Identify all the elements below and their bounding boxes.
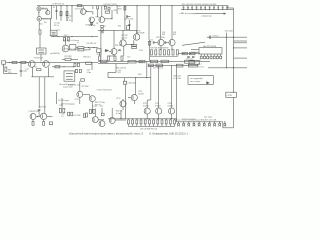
- svg-text:VT22: VT22: [155, 103, 159, 105]
- svg-text:R39 С23 2мк: R39 С23 2мк: [95, 102, 105, 104]
- wire VT11 down: [171, 46, 173, 50]
- node junction input: [38, 12, 39, 13]
- relay K1 box: [226, 92, 237, 97]
- node junction x149 bus: [149, 5, 150, 6]
- svg-text:R30: R30: [138, 74, 141, 76]
- node junction bus x125: [124, 5, 125, 6]
- diode VD22 bottom: [208, 123, 210, 125]
- node junction y67.8 b: [233, 67, 234, 68]
- svg-text:VT19: VT19: [116, 98, 120, 100]
- wire VD21 stub: [203, 122, 205, 123]
- capacitor C48 row: [217, 5, 219, 8]
- box A1 next sheet: [188, 76, 213, 85]
- capacitor C32: [187, 55, 190, 57]
- node junction y77.7: [135, 77, 136, 78]
- svg-text:C2 R8 VD5 C5: C2 R8 VD5 C5: [52, 4, 64, 6]
- wire vertical x51: [50, 6, 52, 19]
- wire center bus y61.3: [98, 60, 210, 62]
- svg-text:2к 1мк: 2к 1мк: [116, 113, 121, 115]
- wire x39.2 long drop: [38, 77, 40, 108]
- capacitor C22: [38, 108, 41, 110]
- svg-text:C6 R14 C7 R15: C6 R14 C7 R15: [104, 4, 117, 6]
- wire VT14 down: [91, 102, 93, 113]
- wire R4 to SA1: [39, 34, 41, 48]
- svg-text:СТ-1: СТ-1: [198, 63, 202, 65]
- component box left of VD7: [97, 49, 101, 53]
- transistor VT16: [99, 121, 105, 127]
- svg-text:к SA1 (зел.провод): к SA1 (зел.провод): [180, 12, 196, 15]
- svg-text:КТ3102: КТ3102: [168, 105, 174, 107]
- resistor R57 bottom row: [153, 120, 155, 124]
- sub bus y66.8: [52, 66, 74, 68]
- transistor VT2: [89, 17, 94, 22]
- node junction y37.2 b: [233, 37, 234, 38]
- resistor R31v: [76, 69, 78, 72]
- transistor VT6: [120, 40, 126, 46]
- wire VT15 to VT17: [98, 119, 104, 121]
- node junction bus bottom b: [158, 118, 159, 119]
- resistor R43h: [189, 52, 195, 54]
- resistor R44v: [86, 113, 88, 117]
- relay K2 box: [64, 71, 75, 81]
- wire VT22 down: [158, 114, 160, 119]
- switch box SB1: [100, 60, 107, 62]
- svg-text:C29 0,1: C29 0,1: [213, 36, 219, 38]
- svg-text:R15 R16 2к2: R15 R16 2к2: [87, 43, 97, 45]
- resistor R53 bottom row: [136, 120, 138, 124]
- node junction VD21: [203, 120, 206, 123]
- svg-text:R41: R41: [94, 106, 97, 108]
- wire x150.8 drop: [150, 65, 152, 100]
- diode VD20 bottom: [198, 123, 200, 125]
- node junction x172 bus: [172, 5, 173, 6]
- wire x135.7 long drop: [135, 78, 137, 95]
- wire R27 link: [62, 58, 65, 60]
- node junction bottom row 9: [165, 117, 168, 120]
- svg-text:VT18 КТ3107: VT18 КТ3107: [28, 111, 39, 113]
- svg-text:DA3 КР174УН31: DA3 КР174УН31: [203, 45, 216, 48]
- wire y120 right: [115, 119, 126, 121]
- node junction VD18: [187, 120, 190, 123]
- wire x146.8 drop: [146, 61, 148, 77]
- wire x62 drop: [61, 98, 63, 108]
- wire R16 right: [84, 49, 90, 51]
- resistor R55 bottom row: [144, 120, 146, 124]
- wire VT20 down: [43, 120, 45, 122]
- node junction y53.6 b: [190, 53, 191, 54]
- node junction C44: [200, 9, 201, 10]
- node junction bus x112: [112, 5, 113, 6]
- node junction bottom row 1: [131, 117, 134, 120]
- svg-text:C30 2200: C30 2200: [225, 30, 233, 32]
- diode VD7: [105, 49, 109, 51]
- switch box SB3: [150, 60, 158, 63]
- wire x117 down: [116, 6, 118, 14]
- resistor R25: [55, 66, 60, 68]
- resistor R48: [189, 61, 199, 65]
- wire VT6 collector: [126, 44, 134, 46]
- capacitor C17: [164, 41, 166, 43]
- svg-text:R51 C41 R52 C42 R53 C43 R54 C4: R51 C41 R52 C42 R53 C43 R54 C44 R55: [182, 4, 217, 6]
- resistor R30v: [78, 63, 80, 66]
- resistor R38 vertical: [163, 50, 165, 55]
- wire bottom bus y121.8: [176, 119, 178, 122]
- resistor R56 bottom row: [148, 120, 150, 124]
- svg-text:C18 10мк: C18 10мк: [127, 83, 135, 85]
- wire DA3 pin 1: [200, 54, 202, 56]
- svg-text:C12: C12: [101, 32, 104, 34]
- node junction x124 y19: [124, 19, 125, 20]
- wire VD20 stub: [198, 122, 200, 123]
- wire VT4 collector right: [76, 47, 78, 49]
- svg-text:1мк 10к: 1мк 10к: [121, 37, 127, 39]
- wire x124.4 drop: [123, 78, 125, 82]
- wire XS1 to VT1a: [41, 8, 48, 10]
- node junction C45: [205, 9, 206, 10]
- transistor VT5: [133, 34, 139, 40]
- wire VT3 collector right: [105, 18, 112, 20]
- wire bus drop to XS1: [38, 6, 40, 7]
- wire stub y47.9: [234, 47, 248, 49]
- svg-text:R27 R28: R27 R28: [65, 56, 72, 58]
- wire x32.4 drop: [31, 67, 33, 77]
- capacitor DA3 pin 5 part: [213, 56, 215, 59]
- wire under resistor row: [150, 56, 178, 58]
- wire x44.8 long drop: [44, 77, 46, 114]
- svg-text:об: об: [77, 42, 79, 44]
- transistor VT22: [156, 108, 162, 114]
- transistor VT21: [144, 108, 150, 114]
- capacitor C11: [118, 49, 121, 51]
- wire vertical x72: [71, 6, 73, 22]
- svg-text:лист схемы: лист схемы: [190, 81, 201, 83]
- svg-text:R16: R16: [114, 10, 117, 12]
- wire SA1 to left bus: [40, 54, 42, 61]
- svg-text:на следующий: на следующий: [190, 77, 203, 80]
- wire VT19-VT20: [36, 115, 40, 117]
- resistor R42h: [182, 52, 188, 54]
- wire VT6 up: [122, 30, 124, 40]
- capacitor DA3 pin 4 part: [210, 56, 212, 59]
- wire x125.4 long drop: [124, 84, 126, 119]
- node junction VT1 collector: [86, 11, 87, 12]
- wire x123.8 up: [123, 46, 125, 56]
- resistor R40 vertical: [172, 50, 174, 55]
- wire DA3 pin 3: [207, 54, 209, 56]
- resistor R23 bus: [21, 61, 26, 63]
- wire K0 down: [53, 36, 55, 37]
- wire input jack link: [38, 11, 40, 17]
- wire x102 up: [99, 52, 101, 56]
- wire left bus y62.4: [6, 61, 98, 63]
- transistor VT20: [40, 113, 46, 119]
- node junction bus c: [27, 62, 28, 63]
- svg-text:С6 R17 см. номинал: С6 R17 см. номинал: [64, 49, 80, 51]
- node junction bottom row 7: [156, 117, 159, 120]
- svg-text:С13: С13: [8, 72, 11, 74]
- transistor VT4: [62, 45, 69, 52]
- wire VT13 emitter to VT14: [83, 93, 89, 95]
- svg-text:10 х 25В: 10 х 25В: [173, 78, 181, 80]
- capacitor DA3 pin 1 part: [200, 56, 202, 59]
- capacitor DA3 pin 3 part: [207, 56, 209, 59]
- wire y72.4 step: [108, 71, 116, 73]
- wire VT7 base: [109, 51, 111, 53]
- resistor R36 vertical: [155, 50, 157, 55]
- svg-text:C6 15: C6 15: [66, 20, 71, 22]
- wire x158.7 drop: [158, 65, 160, 108]
- capacitor C15: [152, 41, 154, 43]
- diode VD18 bottom: [188, 123, 190, 125]
- transistor VT18: [131, 94, 137, 100]
- node XS1 input jack: [37, 7, 41, 11]
- wire VT19 down: [32, 119, 34, 121]
- svg-text:2СС-04 подкл.: 2СС-04 подкл.: [58, 100, 70, 102]
- wire long vertical x160.7: [160, 6, 162, 40]
- wire top bus: [37, 5, 228, 7]
- wire VT13 down: [79, 97, 81, 104]
- wire x108 step: [107, 72, 109, 77]
- wire x171.6 drop: [171, 65, 173, 108]
- resistor R20v: [121, 56, 123, 60]
- node junction y47.6 b: [94, 47, 95, 48]
- resistor R24h: [37, 69, 41, 71]
- resistor R43a: [89, 110, 91, 114]
- resistor R22: [127, 26, 130, 30]
- wire x129.4 short: [128, 20, 130, 30]
- node junction VD24: [218, 120, 221, 123]
- resistor R43b: [93, 110, 95, 114]
- capacitor C43 row: [196, 5, 198, 8]
- wire VT23 down: [171, 114, 173, 119]
- svg-text:R21: R21: [118, 25, 121, 27]
- node junction x121: [121, 118, 122, 119]
- resistor R26v: [5, 67, 7, 71]
- wire vertical x56.5: [56, 6, 58, 20]
- wire long vertical x172: [171, 6, 173, 40]
- relay K0 box: [50, 30, 57, 35]
- resistor R35 vertical: [151, 50, 153, 55]
- wire x92 drop: [91, 62, 93, 70]
- transistor VT17: [109, 117, 115, 123]
- wire DA3 pin 6: [216, 54, 218, 56]
- svg-text:R22: R22: [118, 72, 121, 74]
- node junction K1: [233, 92, 234, 93]
- wire x101.6 up: [101, 108, 103, 113]
- wire VT20 right: [47, 115, 53, 117]
- resistor R61 bottom row: [169, 120, 171, 124]
- resistor R19 vertical: [124, 7, 126, 10]
- capacitor C40 row: [183, 5, 185, 8]
- svg-text:К ЛПМ: К ЛПМ: [227, 95, 233, 97]
- resistor R24b on x149: [148, 41, 150, 45]
- resistor R19v: [114, 56, 116, 60]
- diode VD23 bottom: [214, 123, 216, 125]
- resistor R58 bottom row: [157, 120, 159, 124]
- wire long vertical x149: [148, 6, 150, 40]
- svg-text:вых. прав.: вых. прав.: [204, 117, 213, 119]
- resistor R39 vertical: [168, 50, 170, 55]
- resistor R50v: [63, 108, 65, 112]
- resistor R62 bottom row: [174, 120, 176, 124]
- svg-text:R44 C26: R44 C26: [116, 111, 123, 113]
- wire sub bus y126.3: [128, 125, 174, 127]
- capacitor C41 row: [187, 5, 189, 8]
- wire VD24 stub: [219, 122, 221, 123]
- wire x233.5 below K1: [233, 97, 235, 127]
- wire VT3 up: [101, 6, 103, 17]
- wire VT19 stubs: [122, 107, 124, 110]
- svg-text:«Кассетный магнитофон-приставк: «Кассетный магнитофон-приставка с автома…: [69, 132, 144, 136]
- svg-text:КТ3107: КТ3107: [138, 94, 144, 96]
- node junction C43: [196, 9, 197, 10]
- switch box SB8: [176, 64, 183, 67]
- wire VT21 down: [146, 114, 148, 119]
- wire arrow to commutator: [196, 13, 226, 15]
- svg-text:КТ3102Б: КТ3102Б: [137, 33, 145, 35]
- resistor R22 bus: [12, 61, 17, 63]
- svg-text:R1: R1: [53, 7, 55, 9]
- resistor R17v: [99, 56, 101, 60]
- svg-text:R10 СМ. 1 и 2 канал: R10 СМ. 1 и 2 канал: [63, 40, 79, 42]
- wire DA3 left in b: [191, 51, 199, 53]
- node junction bottom row 6: [152, 117, 155, 120]
- svg-text:А. Крамаренко (UB 10.2013 г.): А. Крамаренко (UB 10.2013 г.): [149, 132, 188, 136]
- node junction C46: [209, 9, 210, 10]
- node junction x160.7 bus: [160, 5, 161, 6]
- wire DA3 pin 7: [220, 54, 222, 56]
- resistor R23h pair b: [132, 47, 137, 49]
- svg-text:R40 510: R40 510: [95, 104, 101, 106]
- transistor VT1a: [46, 11, 50, 15]
- wire vertical x114 upper: [113, 30, 115, 48]
- wire bottom bus y118.8: [108, 118, 177, 120]
- svg-text:VD9 VD10: VD9 VD10: [156, 37, 165, 39]
- svg-text:КТ3102: КТ3102: [155, 105, 161, 107]
- resistor R51 bottom row: [127, 120, 129, 124]
- transistor VT19: [30, 113, 36, 119]
- svg-text:R4: R4: [44, 22, 46, 24]
- resistor R45v: [83, 114, 85, 118]
- wire sub bus y65.3: [148, 64, 198, 66]
- resistor R16h: [78, 49, 84, 51]
- node junction bus x51: [51, 5, 52, 6]
- component C18 box: [123, 81, 126, 84]
- node junction bus bottom c: [171, 118, 172, 119]
- wire arrow y67.8: [208, 67, 247, 69]
- capacitor DA3 pin 7 part: [220, 56, 222, 59]
- wire vertical x92.9: [92, 6, 94, 9]
- wire VD17 stub: [183, 122, 185, 123]
- resistor R8: [66, 11, 68, 15]
- transistor VT3: [99, 17, 105, 23]
- wire stub y42.8: [234, 42, 248, 44]
- node left input terminal: [2, 61, 6, 64]
- svg-text:R6 1к: R6 1к: [54, 25, 59, 27]
- wire bus y36.7: [51, 36, 98, 38]
- node junction x112 low: [112, 18, 113, 19]
- svg-text:VT13: VT13: [75, 99, 79, 101]
- node junction y36.7: [58, 36, 59, 37]
- node junction C41: [187, 9, 188, 10]
- wire DA3 left in a: [191, 48, 199, 50]
- wire vertical x61: [60, 6, 62, 21]
- wire top bus bend: [227, 6, 229, 8]
- wire x176.6 drop: [176, 67, 178, 122]
- resistor R32v: [79, 69, 81, 72]
- resistor R29v: [74, 63, 76, 66]
- node junction C48: [218, 9, 219, 10]
- wire y73.5 short: [4, 73, 18, 75]
- svg-text:C4: C4: [58, 30, 60, 32]
- node junction VT8 e: [161, 49, 162, 50]
- node junction C50: [227, 9, 228, 10]
- node junction VD22: [208, 120, 211, 123]
- capacitor C33: [192, 55, 195, 57]
- node junction C40: [183, 9, 184, 10]
- wire y77.7: [108, 77, 151, 79]
- svg-text:R30: R30: [162, 34, 165, 36]
- wire diagonal to DA3: [182, 42, 205, 45]
- wire x116 drop: [115, 64, 117, 73]
- wire x124.9 to y30: [124, 26, 126, 30]
- capacitor C42 row: [191, 5, 193, 8]
- node junction VD20: [198, 120, 201, 123]
- node junction x67: [67, 5, 68, 6]
- diode VD16 bottom: [177, 123, 179, 125]
- wire VD19 stub: [193, 122, 195, 123]
- transistor VT1: [81, 9, 86, 14]
- wire long vertical x137: [136, 6, 138, 34]
- transistor VT8: [158, 39, 164, 45]
- capacitor C49 row: [222, 5, 224, 8]
- component box small: [81, 79, 85, 81]
- wire commutator bus: [181, 9, 234, 11]
- transistor VT9: [29, 61, 36, 68]
- diode VD17 bottom: [183, 123, 185, 125]
- wire VD23 stub: [214, 122, 216, 123]
- node junction x72: [72, 5, 73, 6]
- wire center bus2 y63.6: [98, 63, 128, 65]
- node junction bus a: [9, 62, 10, 63]
- wire C15 to VT8: [154, 42, 158, 44]
- transistor VT7: [111, 49, 117, 55]
- wire vertical x100.9: [100, 30, 102, 61]
- wire bus corner right: [222, 122, 224, 128]
- resistor R18v: [108, 56, 110, 60]
- svg-text:VD13 VD14 VD15: VD13 VD14 VD15: [182, 119, 196, 121]
- wire C14 stub: [20, 62, 22, 70]
- resistor R41 vertical: [176, 50, 178, 55]
- wire vertical x124.9: [124, 6, 126, 26]
- svg-text:R34 СП3-33: R34 СП3-33: [116, 67, 126, 69]
- wire VT17 up: [111, 108, 113, 117]
- svg-text:0,1: 0,1: [61, 116, 63, 118]
- transistor VT13: [77, 91, 83, 97]
- resistor under VT3 b: [101, 29, 104, 31]
- capacitor C29: [208, 36, 210, 39]
- svg-text:С39 С40 R58 R59 С41: С39 С40 R58 R59 С41: [140, 129, 157, 131]
- node junction y47.9: [233, 47, 234, 48]
- wire x121 drop: [120, 110, 122, 119]
- wire y53.6 right: [178, 53, 200, 55]
- wire C17 to VT11: [166, 42, 169, 44]
- node XS2 input jack: [37, 17, 41, 21]
- node junction y67.8 a: [226, 67, 227, 68]
- wire y30.3: [98, 29, 137, 31]
- svg-text:лин.ВЫХОД: лин.ВЫХОД: [50, 53, 60, 55]
- svg-text:R20: R20: [118, 9, 121, 11]
